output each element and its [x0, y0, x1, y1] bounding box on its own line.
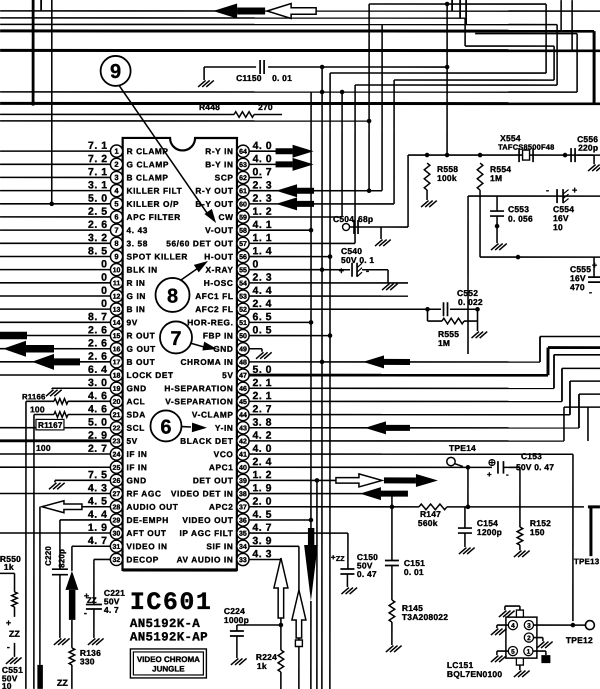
LC151 pin1 mark	[533, 650, 546, 652]
svg-text:CHROMA IN: CHROMA IN	[180, 357, 233, 367]
LC151 pin5 ground	[497, 650, 508, 652]
svg-text:49: 49	[239, 346, 247, 353]
svg-text:G CLAMP: G CLAMP	[127, 159, 169, 169]
junction dot C pin50 row	[328, 333, 333, 338]
svg-text:R1167: R1167	[38, 421, 63, 430]
pin 10 circle	[110, 264, 122, 276]
svg-text:44: 44	[239, 412, 247, 419]
pin 43 circle	[237, 422, 249, 434]
wire LC151 pin3 to TPE12	[534, 624, 586, 626]
svg-text:55: 55	[239, 267, 247, 274]
svg-text:+: +	[339, 266, 344, 276]
junction dot y67 on J	[445, 65, 450, 70]
svg-text:IC601: IC601	[130, 588, 213, 617]
svg-text:SPOT KILLER: SPOT KILLER	[127, 252, 188, 262]
wire pin 63 with arrow out	[249, 163, 278, 165]
wire y114.5 with R448	[0, 113, 234, 115]
pin 37 circle	[237, 501, 249, 513]
svg-text:B-Y IN: B-Y IN	[205, 159, 233, 169]
wire to pin 21	[34, 414, 54, 416]
pin 26 circle	[110, 474, 122, 486]
wire vertical C x330 with corner y73	[329, 73, 331, 689]
svg-text:3. 0: 3. 0	[88, 377, 108, 389]
wire to pin 6	[0, 216, 110, 218]
svg-text:0. 7: 0. 7	[253, 166, 273, 178]
svg-text:R-Y IN: R-Y IN	[205, 146, 233, 156]
svg-text:0: 0	[101, 298, 107, 310]
wire to pin 7	[0, 229, 110, 231]
svg-text:4. 7: 4. 7	[104, 605, 119, 615]
svg-text:IP AGC FILT: IP AGC FILT	[180, 528, 234, 538]
pin 38 circle	[237, 487, 249, 499]
svg-text:BQL7EN0100: BQL7EN0100	[447, 669, 502, 679]
arrow filled down on A	[308, 528, 314, 548]
wire to pin 16	[0, 348, 110, 350]
pin 9 circle	[110, 250, 122, 262]
svg-text:42: 42	[239, 438, 247, 445]
svg-text:58: 58	[239, 228, 247, 235]
svg-text:15: 15	[113, 333, 121, 340]
wire vertical B x322	[321, 67, 323, 689]
pin 19 circle	[110, 382, 122, 394]
pin 53 circle	[237, 290, 249, 302]
svg-text:28: 28	[113, 504, 121, 511]
svg-text:4. 5: 4. 5	[252, 509, 272, 521]
svg-text:1M: 1M	[438, 338, 450, 348]
wire pin 46 jog	[249, 387, 554, 389]
svg-text:3: 3	[114, 173, 118, 182]
resistor R224 1k	[278, 650, 284, 672]
ground pin19	[51, 388, 53, 389]
pin 59 circle	[237, 211, 249, 223]
svg-text:G OUT: G OUT	[126, 344, 155, 354]
svg-text:DECOP: DECOP	[126, 554, 159, 564]
svg-text:7. 1: 7. 1	[88, 166, 108, 178]
resistor R1166 100	[54, 399, 68, 405]
svg-text:34: 34	[239, 544, 247, 551]
wire top bus E (thick)	[0, 49, 600, 52]
svg-text:4. 3: 4. 3	[88, 482, 108, 494]
svg-text:2. 9: 2. 9	[88, 430, 108, 442]
svg-text:R CLAMP: R CLAMP	[127, 146, 169, 156]
svg-text:57: 57	[239, 241, 247, 248]
svg-text:8. 5: 8. 5	[88, 245, 108, 257]
capacitor C556 220p	[570, 148, 572, 162]
svg-text:HOR-REG.: HOR-REG.	[187, 317, 233, 327]
wire to pin 5	[0, 203, 110, 205]
svg-text:APC FILTER: APC FILTER	[127, 212, 181, 222]
svg-text:VCO: VCO	[214, 449, 234, 459]
svg-text:2. 3: 2. 3	[253, 179, 273, 191]
junction dot x322 y67	[320, 65, 325, 70]
svg-text:47: 47	[239, 373, 247, 380]
svg-text:45: 45	[239, 399, 247, 406]
pin 31 circle	[110, 540, 122, 552]
connector marks top left	[40, 0, 42, 11]
svg-text:19: 19	[113, 386, 121, 393]
pin 56 circle	[237, 250, 249, 262]
wire pin 56	[249, 256, 330, 258]
svg-text:62: 62	[239, 175, 247, 182]
svg-text:7. 1: 7. 1	[88, 140, 108, 152]
svg-text:16: 16	[113, 346, 121, 353]
svg-text:AFT OUT: AFT OUT	[126, 528, 166, 538]
wire pin28 drop x40	[39, 507, 41, 665]
wire to pin 20	[26, 400, 54, 402]
svg-text:0. 056: 0. 056	[508, 214, 533, 224]
callout circle 7	[160, 321, 192, 353]
wire pin 55	[249, 269, 322, 271]
capacitor C551 50V 10 electrolytic	[14, 607, 16, 617]
resistor R136 330	[69, 648, 75, 665]
vertical wire x51.7	[51, 0, 53, 204]
thick stub TPE13	[588, 505, 600, 508]
svg-text:V-SEPARATION: V-SEPARATION	[165, 396, 233, 406]
svg-text:4. 7: 4. 7	[252, 522, 272, 534]
callout 6 leader arrow	[181, 426, 191, 428]
svg-text:3. 8: 3. 8	[252, 417, 272, 429]
svg-text:63: 63	[239, 162, 247, 169]
svg-text:21: 21	[113, 412, 121, 419]
wire pin 43 with arrow, jog	[249, 427, 579, 429]
svg-text:DE-EMPH: DE-EMPH	[126, 515, 168, 525]
svg-text:10: 10	[113, 267, 121, 274]
svg-text:LOCK DET: LOCK DET	[126, 370, 173, 380]
junction dot x281 y625	[279, 623, 284, 628]
resistor R558 100k	[424, 163, 430, 190]
svg-text:2. 6: 2. 6	[88, 338, 108, 350]
svg-text:R1166: R1166	[22, 392, 46, 401]
pin 29 circle	[110, 514, 122, 526]
arrow filled left pin17 row	[32, 354, 54, 370]
svg-text:ACL: ACL	[126, 396, 145, 406]
capacitor C552 0.022 with R555 1M	[425, 307, 430, 312]
svg-text:50V 0. 47: 50V 0. 47	[516, 462, 554, 472]
pin 13 circle	[110, 303, 122, 315]
svg-text:4. 0: 4. 0	[253, 153, 273, 165]
svg-text:3. 1: 3. 1	[88, 179, 108, 191]
wire vertical I x408 to C504	[407, 155, 409, 227]
wire pin 58	[249, 229, 311, 231]
svg-text:X554: X554	[500, 133, 521, 143]
svg-text:5. 0: 5. 0	[88, 193, 108, 205]
svg-text:4. 5: 4. 5	[88, 496, 108, 508]
wire vertical G x382	[381, 25, 383, 191]
wire y121	[0, 120, 369, 122]
svg-text:1. 2: 1. 2	[252, 469, 272, 481]
wire pin 57	[249, 242, 355, 244]
junction dot x392 pin37 row	[390, 505, 395, 510]
capacitor C224 1000p	[236, 625, 238, 631]
wire pin 44 jog	[249, 414, 570, 416]
svg-text:VIDEO IN: VIDEO IN	[126, 541, 167, 551]
svg-text:37: 37	[239, 504, 247, 511]
capacitor C153 50V 0.47 electrolytic	[489, 460, 495, 466]
wire pin 38 to C151 branch	[249, 493, 392, 495]
svg-text:2. 3: 2. 3	[253, 272, 273, 284]
svg-text:TPE13: TPE13	[574, 557, 600, 566]
pin 2 circle	[110, 158, 122, 170]
svg-text:VIDEO OUT: VIDEO OUT	[182, 515, 233, 525]
svg-text:DET OUT: DET OUT	[193, 475, 234, 485]
svg-text:X-RAY: X-RAY	[205, 265, 233, 275]
svg-text:1000p: 1000p	[224, 615, 249, 625]
svg-text:-: -	[589, 287, 592, 297]
svg-text:+: +	[487, 470, 492, 479]
LC151 bottom stub ground	[516, 658, 523, 665]
pin 14 circle	[110, 316, 122, 328]
wire pin 50	[249, 335, 330, 337]
svg-text:BLACK DET: BLACK DET	[180, 436, 233, 446]
capacitor C1150 0.01	[259, 60, 261, 74]
svg-text:36: 36	[239, 518, 247, 525]
pin 44 circle	[237, 408, 249, 420]
svg-text:H-SEPARATION: H-SEPARATION	[164, 383, 233, 393]
wire C224 net	[237, 624, 281, 626]
svg-text:KILLER O/P: KILLER O/P	[127, 199, 180, 209]
svg-text:0: 0	[101, 285, 107, 297]
svg-text:7: 7	[170, 328, 181, 350]
svg-text:61: 61	[239, 188, 247, 195]
wire top right y33.5 jog	[475, 33, 577, 35]
wire to pin 31	[72, 545, 110, 547]
svg-text:1. 4: 1. 4	[253, 245, 273, 257]
svg-text:3. 58: 3. 58	[127, 238, 148, 248]
svg-text:R-Y OUT: R-Y OUT	[195, 186, 233, 196]
wire to pin 27	[0, 492, 110, 494]
wire pin 59 CW	[249, 216, 342, 218]
pin 17 circle	[110, 356, 122, 368]
pin 16 circle	[110, 343, 122, 355]
wire pin 61 with arrow in	[249, 190, 382, 192]
junction dot x447 y4	[445, 2, 450, 7]
pin 27 circle	[110, 487, 122, 499]
pin 20 circle	[110, 395, 122, 407]
svg-text:V-CLAMP: V-CLAMP	[192, 410, 234, 420]
svg-text:2. 1: 2. 1	[252, 390, 272, 402]
svg-text:H-OUT: H-OUT	[204, 252, 233, 262]
wire jog x562	[561, 368, 563, 401]
wire pin 35 to C150	[249, 532, 348, 534]
svg-text:270: 270	[258, 102, 273, 112]
wire top bus D (thick) with jog	[0, 29, 594, 32]
junction dot TPE14	[466, 465, 471, 470]
svg-text:35: 35	[239, 531, 247, 538]
svg-text:14: 14	[113, 320, 121, 327]
svg-text:2. 4: 2. 4	[252, 456, 272, 468]
svg-text:40: 40	[239, 465, 247, 472]
svg-text:GND: GND	[126, 383, 146, 393]
junction dot B pin55 row	[320, 267, 325, 272]
LC151 top stub and ground	[516, 610, 523, 617]
connector marks top right	[451, 0, 453, 11]
svg-text:1M: 1M	[490, 173, 502, 183]
wire to pin 15	[0, 334, 110, 336]
wire top right vertical x572	[571, 0, 573, 50]
wire R554 down to corner	[479, 190, 481, 257]
pin 8 circle	[110, 237, 122, 249]
wire jog x570	[569, 381, 571, 415]
svg-text:1k: 1k	[257, 661, 267, 671]
test point TPE12	[585, 621, 594, 630]
svg-text:6: 6	[160, 416, 171, 438]
svg-text:11: 11	[113, 280, 121, 287]
svg-text:4. 6: 4. 6	[88, 403, 108, 415]
svg-text:4. 1: 4. 1	[253, 219, 273, 231]
wire to pin 4	[0, 190, 110, 192]
pin 36 circle	[237, 514, 249, 526]
svg-text:C553: C553	[508, 204, 529, 214]
svg-text:4. 0: 4. 0	[252, 443, 272, 455]
capacitor C154 1200p	[464, 507, 466, 528]
capacitor C540 50V 0.1 electrolytic	[322, 269, 350, 271]
pin 46 circle	[237, 382, 249, 394]
pin 25 circle	[110, 461, 122, 473]
svg-text:0. 47: 0. 47	[357, 569, 377, 579]
wire to pin 23	[0, 439, 110, 442]
svg-text:H-OSC: H-OSC	[204, 278, 234, 288]
svg-text:APC2: APC2	[209, 502, 234, 512]
wire to pin 2	[0, 163, 110, 165]
wire y4 segment	[369, 3, 546, 5]
svg-text:9V: 9V	[127, 317, 138, 327]
wire pin 52 to C552	[249, 308, 427, 310]
wire to pin 14	[0, 321, 110, 323]
svg-text:4. 4: 4. 4	[253, 285, 273, 297]
svg-text:32: 32	[113, 557, 121, 564]
wire jog x540	[539, 336, 541, 362]
pin 45 circle	[237, 395, 249, 407]
wire vertical D x342	[341, 92, 343, 217]
svg-text:TPE14: TPE14	[449, 443, 476, 453]
pin 15 circle	[110, 329, 122, 341]
wire pin 62 stub	[249, 176, 262, 178]
wire C1150 net y67	[204, 66, 256, 68]
svg-text:9: 9	[114, 252, 118, 261]
LC151 pin4 ground	[497, 624, 508, 626]
svg-text:2. 1: 2. 1	[252, 377, 272, 389]
svg-text:8. 7: 8. 7	[88, 311, 108, 323]
svg-text:5V: 5V	[222, 370, 233, 380]
svg-text:12: 12	[113, 294, 121, 301]
svg-text:56/60 DET OUT: 56/60 DET OUT	[166, 238, 233, 248]
pin 54 circle	[237, 277, 249, 289]
svg-text:4. 2: 4. 2	[252, 430, 272, 442]
svg-text:0. 022: 0. 022	[458, 297, 483, 307]
svg-text:AFC2 FL: AFC2 FL	[195, 304, 233, 314]
pin 58 circle	[237, 224, 249, 236]
svg-text:+: +	[6, 618, 11, 628]
svg-text:T3A208022: T3A208022	[402, 612, 448, 622]
wire vertical E x355 with corner y85	[354, 85, 356, 243]
pin 50 circle	[237, 329, 249, 341]
pin 3 circle	[110, 171, 122, 183]
svg-text:30: 30	[113, 531, 121, 538]
pin 41 circle	[237, 448, 249, 460]
wire to pin 22	[0, 427, 110, 429]
wire jog x579	[578, 394, 580, 428]
pin 12 circle	[110, 290, 122, 302]
svg-text:SDA: SDA	[126, 410, 145, 420]
wire top bus A	[0, 10, 600, 12]
crystal X554 TAFCS8500F48	[518, 148, 520, 162]
svg-text:100k: 100k	[437, 173, 457, 183]
pin 23 circle	[110, 435, 122, 447]
wire to pin 29	[60, 519, 110, 521]
svg-text:3. 9: 3. 9	[252, 535, 272, 547]
pin 11 circle	[110, 277, 122, 289]
svg-text:2. 4: 2. 4	[253, 298, 273, 310]
svg-text:31: 31	[113, 544, 121, 551]
svg-text:IF IN: IF IN	[126, 462, 147, 472]
svg-text:-: -	[546, 185, 549, 195]
pin 51 circle	[237, 316, 249, 328]
capacitor C504 68p	[343, 224, 350, 231]
arrow outline left on top bus A	[267, 3, 316, 18]
junction dot C pin56 row	[328, 254, 333, 259]
svg-text:0. 01: 0. 01	[404, 567, 424, 577]
arrow filled left pin16 row	[3, 341, 26, 357]
svg-text:2. 7: 2. 7	[88, 443, 108, 455]
junction dot B pin48 row	[320, 360, 325, 365]
pin 60 circle	[237, 198, 249, 210]
wire vertical J x447	[446, 4, 448, 155]
resistor R554 1M	[477, 163, 483, 190]
svg-text:2. 6: 2. 6	[88, 324, 108, 336]
pin 7 circle	[110, 224, 122, 236]
svg-text:59: 59	[239, 215, 247, 222]
svg-text:V-OUT: V-OUT	[205, 225, 233, 235]
svg-text:7. 2: 7. 2	[88, 153, 108, 165]
svg-text:10: 10	[553, 222, 563, 232]
svg-text:29: 29	[113, 518, 121, 525]
wire crystal net y155	[408, 154, 600, 156]
pin 48 circle	[237, 356, 249, 368]
svg-text:2. 3: 2. 3	[253, 193, 273, 205]
capacitor C151 0.01	[385, 560, 399, 562]
svg-text:33: 33	[239, 557, 247, 564]
junction dot D y92	[340, 90, 345, 95]
junction dot A pin58 row	[309, 228, 314, 233]
wire to pin 26	[55, 479, 110, 481]
svg-text:2: 2	[527, 635, 531, 642]
junction dot R558 top	[425, 153, 430, 158]
svg-text:IF IN: IF IN	[126, 449, 147, 459]
pin 6 circle	[110, 211, 122, 223]
svg-text:3: 3	[527, 623, 531, 630]
wire to pin 24	[0, 453, 110, 455]
svg-text:ZZ: ZZ	[336, 556, 345, 563]
svg-text:1200p: 1200p	[477, 527, 502, 537]
pin 1 circle	[110, 145, 122, 157]
junction dot x468 pin37 row	[467, 467, 469, 507]
wire pin 37 with R147	[249, 506, 419, 508]
svg-text:56: 56	[239, 254, 247, 261]
junction dot y121 on F	[367, 119, 372, 124]
svg-text:CW: CW	[219, 212, 234, 222]
svg-text:0: 0	[253, 258, 259, 270]
svg-text:0: 0	[101, 272, 107, 284]
wire vertical A x311	[310, 92, 312, 545]
svg-text:AUDIO OUT: AUDIO OUT	[126, 502, 178, 512]
svg-text:2. 7: 2. 7	[252, 403, 272, 415]
svg-text:-: -	[7, 642, 10, 652]
svg-text:4. 43: 4. 43	[127, 225, 148, 235]
junction dot x447 y155	[445, 153, 450, 158]
svg-text:GND: GND	[213, 344, 233, 354]
svg-text:26: 26	[113, 478, 121, 485]
wire pin 64 with arrow out	[249, 150, 278, 152]
